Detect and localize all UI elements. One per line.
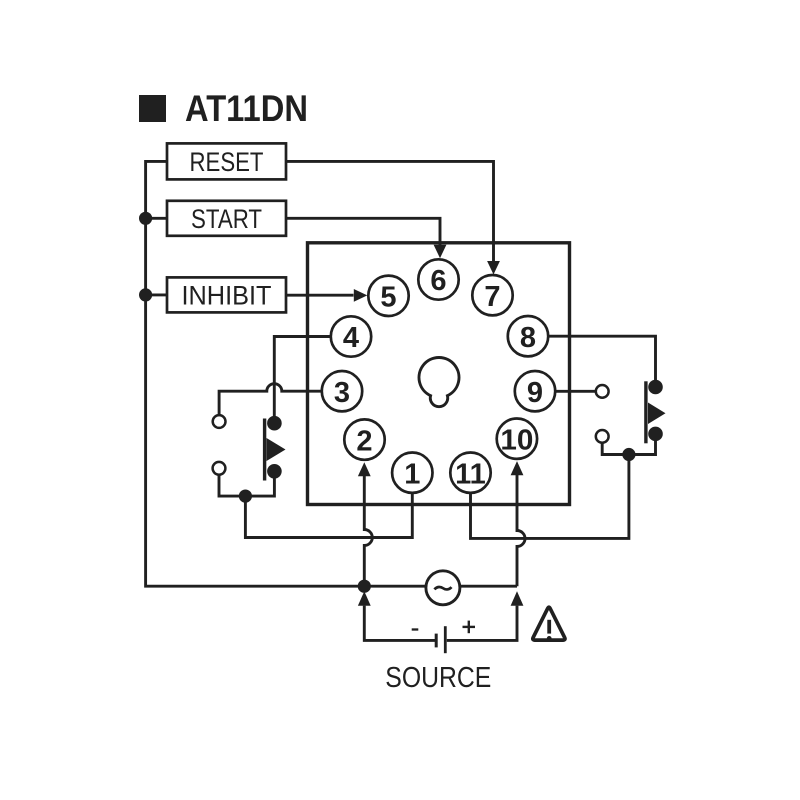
svg-text:AT11DN: AT11DN: [185, 88, 308, 129]
svg-text:3: 3: [334, 377, 350, 409]
svg-text:11: 11: [455, 458, 486, 490]
svg-text:INHIBIT: INHIBIT: [182, 281, 272, 311]
svg-text:2: 2: [356, 425, 372, 457]
svg-text:RESET: RESET: [190, 147, 264, 177]
svg-text:5: 5: [380, 282, 396, 314]
svg-text:8: 8: [520, 322, 536, 354]
svg-text:10: 10: [500, 424, 533, 456]
svg-text:START: START: [191, 204, 262, 234]
svg-text:4: 4: [343, 322, 359, 354]
svg-text:6: 6: [430, 265, 446, 297]
svg-text:7: 7: [484, 281, 500, 313]
svg-text:SOURCE: SOURCE: [385, 662, 491, 694]
svg-text:1: 1: [404, 458, 420, 490]
svg-text:9: 9: [527, 377, 543, 409]
